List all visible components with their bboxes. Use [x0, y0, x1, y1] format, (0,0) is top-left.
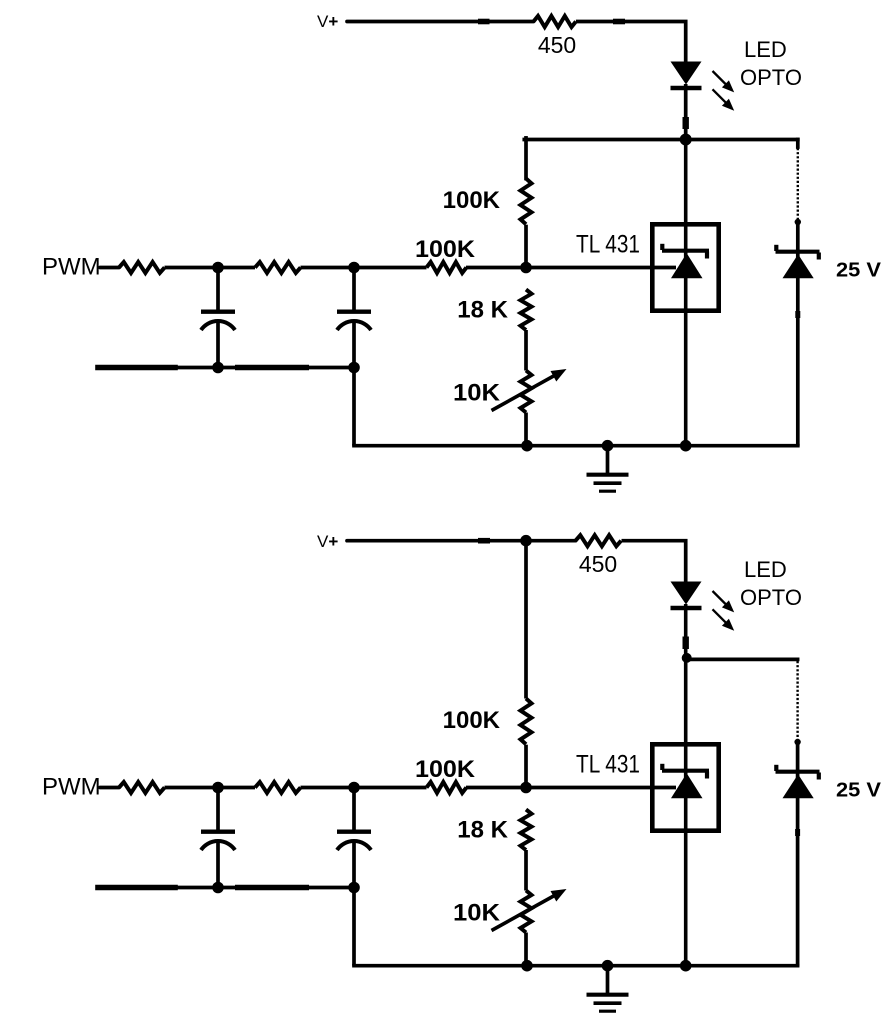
- junction node E dot: [212, 362, 224, 374]
- wire blob on V+ rail left: [478, 19, 490, 25]
- wire 18K to 10K: [524, 850, 528, 891]
- LED emission arrow 1: [713, 591, 735, 612]
- junction node C dot: [212, 262, 224, 274]
- TL431 triangle: [671, 253, 703, 278]
- wire down from node F: [352, 368, 356, 446]
- junction dot TL431 bottom: [680, 960, 692, 972]
- TL431 bar left hook: [660, 244, 664, 250]
- bead dot on right branch: [794, 739, 800, 745]
- svg-text:25 V: 25 V: [836, 780, 882, 802]
- wire 10K to bottom rail: [524, 933, 528, 966]
- capacitor C4 top lead: [352, 788, 356, 830]
- potentiometer arrow: [492, 889, 567, 931]
- TOP CIRCUIT: [42, 12, 882, 491]
- wire R5 to R6: [301, 786, 427, 790]
- capacitor C3 bottom lead: [216, 842, 220, 888]
- TL431 cathode bar: [662, 769, 709, 773]
- wire R2 to R3: [301, 266, 427, 270]
- wire LED to node A: [684, 84, 688, 140]
- junction node F2 dot: [348, 882, 360, 894]
- wire blob on V+ rail right: [613, 19, 625, 25]
- wire TL431 vertical through: [684, 140, 688, 446]
- junction node D2 dot: [348, 782, 360, 794]
- resistor 450: [534, 16, 576, 27]
- junction dot pot bottom: [521, 960, 533, 972]
- zener bar left hook: [774, 765, 778, 771]
- resistor R4 input: [119, 782, 165, 793]
- LED D1 cathode bar: [671, 86, 702, 90]
- junction node F dot: [348, 362, 360, 374]
- wire right branch dotted: [797, 148, 799, 220]
- capacitor C2 bottom lead: [352, 322, 356, 368]
- wire V+ down to R 100K: [524, 541, 528, 699]
- wire 10K to bottom rail: [524, 413, 528, 446]
- wire V+ rail to LED corner: [347, 20, 534, 24]
- capacitor C1 top plate: [201, 310, 235, 314]
- wire right branch dotted: [796, 661, 798, 741]
- wire thick segment left: [98, 885, 175, 891]
- wire right branch solid: [796, 741, 800, 966]
- svg-text:PWM: PWM: [42, 774, 101, 801]
- capacitor C2 curved plate: [337, 321, 371, 330]
- resistor 100K vertical: [521, 179, 532, 225]
- svg-text:10K: 10K: [453, 380, 501, 407]
- svg-text:LED: LED: [744, 37, 787, 62]
- potentiometer 10K zigzag: [521, 371, 532, 413]
- TL431 triangle: [671, 773, 703, 798]
- TL431 cathode bar: [662, 249, 709, 253]
- ground symbol: [587, 446, 629, 492]
- TL431 U2 box: [652, 744, 718, 830]
- svg-text:100K: 100K: [415, 756, 476, 783]
- capacitor C4 curved plate: [337, 841, 371, 850]
- capacitor C4 top plate: [337, 830, 371, 834]
- junction dot V+ to 100K: [520, 535, 532, 547]
- wire lower return line: [98, 886, 354, 890]
- wire thick segment mid: [235, 365, 309, 371]
- resistor R1 input: [119, 262, 165, 273]
- LED emission arrow 2: [713, 609, 735, 630]
- svg-text:LED: LED: [744, 557, 787, 582]
- wire lower return line: [98, 366, 354, 370]
- resistor 100K vertical: [521, 699, 532, 745]
- resistor R3 100K horizontal: [427, 262, 467, 273]
- junction dot pot bottom: [521, 440, 533, 452]
- zener D4 triangle: [783, 774, 814, 798]
- resistor R6 100K horizontal: [427, 782, 467, 793]
- wire thick segment mid: [235, 885, 309, 891]
- svg-text:18 K: 18 K: [457, 297, 508, 324]
- svg-text:V+: V+: [317, 12, 338, 31]
- svg-text:100K: 100K: [443, 707, 501, 734]
- LED emission arrow 2: [713, 89, 735, 110]
- junction dot LED cathode node: [682, 653, 692, 663]
- wire R4 to R5: [165, 786, 256, 790]
- junction dot TL431 bottom: [680, 440, 692, 452]
- TL431 bar right hook: [705, 252, 709, 259]
- svg-text:450: 450: [538, 32, 576, 58]
- wire 18K to 10K: [524, 330, 528, 371]
- wire blob right branch: [795, 829, 800, 836]
- svg-text:100K: 100K: [443, 187, 501, 214]
- LED emission arrow 1: [713, 71, 735, 92]
- junction node B dot: [520, 262, 532, 274]
- junction node C2 dot: [212, 782, 224, 794]
- capacitor C3 top plate: [201, 830, 235, 834]
- svg-text:100K: 100K: [415, 236, 476, 263]
- TL431 bar left hook: [660, 764, 664, 770]
- zener bar right hook: [817, 253, 821, 260]
- wire LED down through TL431 to bottom rail: [684, 604, 688, 966]
- wire top rail to R 100K: [524, 138, 528, 179]
- wire V+ rail to LED corner: [347, 539, 576, 543]
- wire down from node F2: [352, 888, 356, 966]
- zener D2 triangle: [783, 254, 814, 278]
- wire LED node to right branch: [686, 658, 798, 662]
- resistor 18K: [521, 810, 532, 851]
- capacitor C4 bottom lead: [352, 842, 356, 888]
- BOTTOM CIRCUIT: [42, 532, 882, 1011]
- zener bar right hook: [817, 773, 821, 780]
- junction node A dot: [680, 134, 692, 146]
- junction node D dot: [348, 262, 360, 274]
- potentiometer arrow: [492, 369, 567, 411]
- capacitor C3 top lead: [216, 788, 220, 830]
- junction dot ground: [602, 960, 614, 972]
- bead dot on right branch: [795, 219, 801, 225]
- svg-text:TL 431: TL 431: [576, 751, 640, 779]
- wire right branch solid top: [796, 140, 800, 148]
- ground symbol: [587, 966, 629, 1012]
- junction node B2 dot: [520, 782, 532, 794]
- svg-text:PWM: PWM: [42, 254, 101, 281]
- wire R1 to R2: [165, 266, 256, 270]
- junction node E2 dot: [212, 882, 224, 894]
- svg-text:V+: V+: [317, 532, 338, 551]
- wire PWM input: [100, 786, 119, 790]
- wire bottom rail: [354, 444, 798, 448]
- capacitor C1 curved plate: [201, 321, 235, 330]
- wire R100K to node B: [524, 225, 528, 268]
- wire blob right branch: [795, 311, 800, 318]
- capacitor C2 top plate: [337, 310, 371, 314]
- LED D3 cathode bar: [671, 606, 702, 610]
- svg-text:OPTO: OPTO: [740, 65, 802, 90]
- resistor R5: [255, 782, 301, 793]
- TL431 U1 box: [652, 224, 718, 310]
- junction dot ground: [602, 440, 614, 452]
- svg-text:25 V: 25 V: [836, 260, 882, 282]
- wire top rail: [524, 138, 798, 142]
- resistor R2: [255, 262, 301, 273]
- zener D4 cathode bar: [776, 770, 820, 774]
- wire blob below LED: [683, 637, 689, 650]
- capacitor C1 bottom lead: [216, 322, 220, 368]
- LED D3 triangle: [671, 582, 702, 605]
- svg-text:18 K: 18 K: [457, 817, 508, 844]
- wire right branch solid: [796, 221, 800, 446]
- resistor 18K: [521, 290, 532, 331]
- wire bottom rail: [354, 964, 798, 968]
- wire R100K to node B2: [524, 745, 528, 788]
- capacitor C1 top lead: [216, 268, 220, 310]
- svg-text:10K: 10K: [453, 900, 501, 927]
- potentiometer 10K zigzag: [521, 891, 532, 933]
- svg-text:TL 431: TL 431: [576, 231, 640, 259]
- wire R3 to TL431 gate: [466, 266, 676, 270]
- capacitor C3 curved plate: [201, 841, 235, 850]
- wire thick segment left: [98, 365, 175, 371]
- capacitor C2 top lead: [352, 268, 356, 310]
- zener bar left hook: [774, 245, 778, 251]
- resistor 450: [576, 535, 622, 546]
- LED D1 triangle: [671, 62, 702, 85]
- zener D2 cathode bar: [776, 250, 820, 254]
- svg-text:OPTO: OPTO: [740, 585, 802, 610]
- wire R6 to TL431 gate: [466, 786, 676, 790]
- wire PWM input: [100, 266, 119, 270]
- wire blob below LED: [683, 117, 689, 129]
- svg-text:450: 450: [579, 551, 617, 577]
- wire blob on V+ rail: [478, 538, 490, 544]
- TL431 bar right hook: [705, 772, 709, 779]
